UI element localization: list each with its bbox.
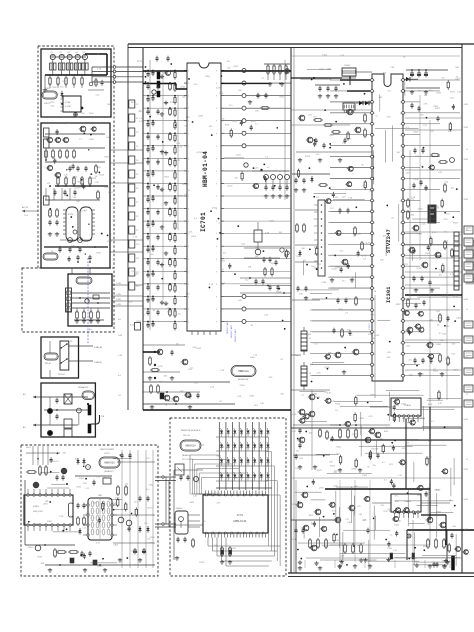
- svg-text:3-2B: 3-2B: [464, 357, 469, 359]
- svg-text:4.7K: 4.7K: [96, 543, 101, 545]
- svg-text:P7: P7: [136, 202, 138, 204]
- svg-text:2.2K: 2.2K: [311, 522, 316, 524]
- svg-text:2.2K: 2.2K: [115, 497, 120, 499]
- svg-text:9: 9: [216, 271, 217, 273]
- svg-text:Q3: Q3: [67, 52, 70, 54]
- svg-text:P0: P0: [136, 104, 138, 106]
- svg-text:4.7K: 4.7K: [450, 274, 455, 276]
- svg-text:9: 9: [216, 121, 217, 123]
- svg-text:Q702: Q702: [97, 566, 103, 568]
- svg-text:1: 1: [374, 179, 375, 181]
- svg-text:2: 2: [400, 146, 401, 148]
- svg-text:47u: 47u: [177, 314, 180, 316]
- svg-text:2.2K: 2.2K: [59, 516, 64, 518]
- svg-text:4.7K: 4.7K: [97, 69, 102, 71]
- svg-text:Q702: Q702: [111, 503, 117, 505]
- svg-text:B-REV: B-REV: [104, 453, 111, 455]
- svg-text:V-OUT: V-OUT: [369, 323, 371, 330]
- svg-text:1: 1: [374, 288, 375, 290]
- svg-text:3-2B: 3-2B: [464, 529, 469, 531]
- svg-text:47u: 47u: [408, 360, 411, 362]
- svg-text:4.7K: 4.7K: [442, 295, 447, 297]
- svg-text:47u: 47u: [223, 252, 226, 254]
- svg-text:2: 2: [400, 211, 401, 213]
- svg-text:RM601: RM601: [176, 508, 183, 510]
- svg-text:HBM-01-04: HBM-01-04: [202, 151, 209, 187]
- svg-text:Q702: Q702: [450, 91, 456, 93]
- svg-text:Q702: Q702: [412, 558, 418, 560]
- svg-text:Q702: Q702: [418, 208, 424, 210]
- svg-text:47u: 47u: [347, 330, 350, 332]
- svg-text:2.2K: 2.2K: [420, 373, 425, 375]
- svg-text:4.7K: 4.7K: [387, 509, 392, 511]
- svg-text:9: 9: [216, 259, 217, 261]
- svg-text:Q702: Q702: [212, 207, 218, 209]
- svg-text:REMOTE MODULE: REMOTE MODULE: [181, 430, 201, 432]
- svg-text:4-4: 4-4: [118, 375, 121, 377]
- svg-text:47u: 47u: [420, 114, 423, 116]
- svg-text:P10: P10: [136, 244, 139, 246]
- svg-text:Q702: Q702: [233, 66, 239, 68]
- svg-text:2.2K: 2.2K: [370, 314, 375, 316]
- svg-text:47u: 47u: [134, 501, 137, 503]
- svg-text:DEGAUSS: DEGAUSS: [78, 386, 88, 389]
- svg-text:9: 9: [216, 108, 217, 110]
- svg-text:1: 1: [188, 246, 189, 248]
- svg-text:RELAY: RELAY: [45, 362, 52, 365]
- svg-text:2: 2: [400, 91, 401, 93]
- svg-text:4.7K: 4.7K: [176, 160, 181, 162]
- svg-text:1: 1: [188, 71, 189, 73]
- svg-text:P9: P9: [136, 230, 138, 232]
- svg-text:HBM-01A: HBM-01A: [185, 445, 196, 448]
- svg-text:9: 9: [216, 133, 217, 135]
- svg-text:9: 9: [216, 221, 217, 223]
- svg-text:47u: 47u: [385, 427, 388, 429]
- svg-text:1: 1: [188, 133, 189, 135]
- svg-text:P8: P8: [136, 216, 138, 218]
- svg-text:3-2B: 3-2B: [464, 199, 469, 201]
- svg-text:3-2B: 3-2B: [464, 469, 469, 471]
- svg-text:1: 1: [374, 157, 375, 159]
- svg-text:9: 9: [216, 284, 217, 286]
- svg-text:4.7K: 4.7K: [423, 104, 428, 106]
- svg-text:4.7K: 4.7K: [384, 511, 389, 513]
- svg-text:Q702: Q702: [436, 512, 442, 514]
- svg-text:4-8: 4-8: [118, 319, 121, 321]
- svg-text:1: 1: [188, 146, 189, 148]
- svg-text:2.2K: 2.2K: [237, 396, 242, 398]
- svg-text:Q702: Q702: [34, 523, 40, 525]
- svg-text:Q702: Q702: [196, 348, 202, 350]
- svg-text:47u: 47u: [439, 274, 442, 276]
- svg-text:HEIGHT-ADJ: HEIGHT-ADJ: [226, 321, 229, 334]
- svg-text:47u: 47u: [459, 235, 462, 237]
- svg-text:9: 9: [216, 296, 217, 298]
- svg-text:9: 9: [216, 196, 217, 198]
- svg-text:1-8W: 1-8W: [116, 283, 121, 285]
- svg-text:1: 1: [188, 271, 189, 273]
- svg-text:47u: 47u: [150, 254, 153, 256]
- svg-text:2.2K: 2.2K: [234, 477, 239, 479]
- svg-text:4.7K: 4.7K: [448, 131, 453, 133]
- svg-text:2.2K: 2.2K: [56, 174, 61, 176]
- svg-text:JW: JW: [316, 197, 319, 199]
- svg-text:1: 1: [188, 158, 189, 160]
- svg-text:P6: P6: [136, 188, 138, 190]
- svg-text:2.2K: 2.2K: [149, 543, 154, 545]
- svg-text:1-8B(-B): 1-8B(-B): [94, 362, 102, 364]
- svg-text:47u: 47u: [394, 496, 397, 498]
- svg-text:1: 1: [188, 83, 189, 85]
- svg-text:2.2K: 2.2K: [219, 93, 224, 95]
- svg-text:2: 2: [400, 222, 401, 224]
- svg-text:2.2K: 2.2K: [366, 242, 371, 244]
- svg-text:2.2K: 2.2K: [372, 291, 377, 293]
- svg-text:1-9: 1-9: [118, 395, 121, 397]
- svg-text:2.2K: 2.2K: [95, 182, 100, 184]
- svg-text:47u: 47u: [405, 423, 408, 425]
- svg-text:RL: RL: [70, 341, 72, 343]
- svg-text:S0: S0: [251, 419, 253, 421]
- svg-text:2.2K: 2.2K: [347, 139, 352, 141]
- svg-text:4.7K: 4.7K: [317, 372, 322, 374]
- svg-text:4.7K: 4.7K: [333, 486, 338, 488]
- svg-text:9: 9: [216, 246, 217, 248]
- svg-text:Q1: Q1: [50, 52, 53, 54]
- svg-text:2.2K: 2.2K: [331, 401, 336, 403]
- svg-text:3-2B: 3-2B: [464, 159, 469, 161]
- svg-text:IC101: IC101: [68, 214, 74, 216]
- svg-text:2: 2: [400, 113, 401, 115]
- svg-text:2.2K: 2.2K: [133, 236, 138, 238]
- svg-text:HEIGHT-ADJ: HEIGHT-ADJ: [230, 325, 233, 338]
- svg-text:2.2K: 2.2K: [445, 358, 450, 360]
- svg-text:2: 2: [400, 179, 401, 181]
- svg-text:9: 9: [216, 183, 217, 185]
- svg-text:9: 9: [216, 96, 217, 98]
- svg-text:2.2K: 2.2K: [210, 387, 215, 389]
- svg-text:47u: 47u: [226, 61, 229, 63]
- svg-text:2.2K: 2.2K: [444, 219, 449, 221]
- svg-text:1-8W: 1-8W: [116, 294, 121, 296]
- svg-text:1-8W: 1-8W: [116, 304, 121, 306]
- svg-text:2: 2: [400, 288, 401, 290]
- svg-text:3-2B: 3-2B: [464, 419, 469, 421]
- svg-text:AC IN: AC IN: [22, 206, 28, 209]
- svg-text:1: 1: [374, 80, 375, 82]
- svg-text:4.7K: 4.7K: [369, 416, 374, 418]
- svg-text:1: 1: [188, 309, 189, 311]
- svg-text:HBM-01A: HBM-01A: [104, 462, 115, 465]
- svg-text:CN302: CN302: [344, 65, 351, 67]
- svg-text:1: 1: [374, 200, 375, 202]
- svg-text:Q702: Q702: [158, 366, 164, 368]
- svg-text:1: 1: [188, 284, 189, 286]
- svg-text:9: 9: [216, 171, 217, 173]
- svg-text:KA5Q0765: KA5Q0765: [33, 510, 44, 513]
- svg-text:1: 1: [374, 168, 375, 170]
- svg-text:(BLA01-P): (BLA01-P): [104, 470, 114, 473]
- svg-text:3-2B: 3-2B: [464, 104, 469, 106]
- svg-text:P2: P2: [136, 132, 138, 134]
- svg-text:47u: 47u: [334, 197, 337, 199]
- svg-text:Q702: Q702: [453, 296, 459, 298]
- svg-text:1: 1: [188, 196, 189, 198]
- svg-text:Q5: Q5: [82, 52, 85, 54]
- svg-text:S7: S7: [232, 419, 234, 421]
- svg-text:3-8B(+B): 3-8B(+B): [94, 347, 102, 349]
- svg-text:47u: 47u: [429, 90, 432, 92]
- svg-text:1: 1: [188, 259, 189, 261]
- svg-text:47u: 47u: [441, 77, 444, 79]
- svg-text:1: 1: [374, 233, 375, 235]
- svg-text:S2: S2: [245, 419, 247, 421]
- svg-text:47u: 47u: [62, 55, 65, 57]
- svg-text:47u: 47u: [411, 199, 414, 201]
- svg-text:2: 2: [400, 321, 401, 323]
- svg-text:IC601: IC601: [33, 506, 40, 508]
- svg-text:IC301: IC301: [386, 286, 392, 303]
- svg-text:1: 1: [374, 135, 375, 137]
- svg-text:9: 9: [216, 146, 217, 148]
- svg-text:2.2K: 2.2K: [170, 102, 175, 104]
- svg-text:2: 2: [400, 190, 401, 192]
- svg-text:3-2B: 3-2B: [464, 127, 469, 129]
- svg-text:HEIGHT-ADJ: HEIGHT-ADJ: [234, 329, 237, 342]
- svg-text:2.2K: 2.2K: [348, 198, 353, 200]
- svg-text:4.7K: 4.7K: [130, 325, 135, 327]
- svg-text:P3: P3: [136, 146, 138, 148]
- svg-text:Q702: Q702: [369, 191, 375, 193]
- svg-text:1: 1: [188, 108, 189, 110]
- svg-text:1-4D: 1-4D: [292, 414, 297, 416]
- svg-text:1-4C: 1-4C: [292, 431, 297, 433]
- svg-text:S0: S0: [225, 419, 227, 421]
- svg-text:1: 1: [374, 124, 375, 126]
- svg-text:4.7K: 4.7K: [265, 233, 270, 235]
- svg-text:2.2K: 2.2K: [421, 223, 426, 225]
- svg-text:2: 2: [400, 310, 401, 312]
- svg-text:9: 9: [216, 71, 217, 73]
- svg-text:47u: 47u: [372, 465, 375, 467]
- svg-text:47u: 47u: [451, 188, 454, 190]
- svg-text:1: 1: [374, 266, 375, 268]
- svg-text:S5: S5: [238, 419, 240, 421]
- svg-text:47u: 47u: [202, 521, 205, 523]
- svg-text:(BLA01): (BLA01): [182, 454, 190, 457]
- svg-text:2.2K: 2.2K: [64, 174, 69, 176]
- svg-text:1: 1: [188, 296, 189, 298]
- svg-text:X-TAL: X-TAL: [65, 101, 71, 104]
- svg-text:2.2K: 2.2K: [67, 122, 72, 124]
- svg-text:47u: 47u: [332, 510, 335, 512]
- svg-text:2: 2: [400, 135, 401, 137]
- svg-text:9: 9: [216, 158, 217, 160]
- svg-text:1: 1: [374, 190, 375, 192]
- svg-text:1: 1: [374, 211, 375, 213]
- svg-text:S7: S7: [258, 419, 260, 421]
- svg-text:RM-201: RM-201: [183, 435, 191, 437]
- svg-text:Q702: Q702: [352, 434, 358, 436]
- svg-text:2.2K: 2.2K: [424, 188, 429, 190]
- svg-text:Q702: Q702: [436, 92, 442, 94]
- svg-text:Q4: Q4: [75, 52, 78, 54]
- svg-text:4.7K: 4.7K: [184, 194, 189, 196]
- svg-text:1: 1: [374, 222, 375, 224]
- svg-text:1: 1: [188, 234, 189, 236]
- svg-text:1: 1: [374, 113, 375, 115]
- svg-text:D601-4: D601-4: [52, 461, 59, 463]
- svg-text:47u: 47u: [147, 539, 150, 541]
- svg-text:2.2K: 2.2K: [220, 370, 225, 372]
- svg-text:P11: P11: [136, 258, 139, 260]
- svg-text:2: 2: [400, 354, 401, 356]
- svg-text:2.2K: 2.2K: [176, 143, 181, 145]
- svg-text:4.7K: 4.7K: [432, 232, 437, 234]
- svg-text:47u: 47u: [388, 90, 391, 92]
- svg-text:4.7K: 4.7K: [438, 403, 443, 405]
- svg-text:1: 1: [188, 183, 189, 185]
- svg-text:4.7K: 4.7K: [209, 284, 214, 286]
- svg-text:2: 2: [400, 299, 401, 301]
- svg-text:4.7K: 4.7K: [139, 121, 144, 123]
- svg-text:9: 9: [216, 83, 217, 85]
- svg-text:1: 1: [188, 96, 189, 98]
- svg-text:3-2B: 3-2B: [464, 299, 469, 301]
- svg-text:(BLA01-M): (BLA01-M): [238, 378, 248, 381]
- svg-text:4.7K: 4.7K: [362, 256, 367, 258]
- svg-text:2: 2: [400, 277, 401, 279]
- svg-text:1: 1: [374, 277, 375, 279]
- svg-text:Q702: Q702: [108, 192, 114, 194]
- svg-text:TDA16: TDA16: [404, 500, 412, 503]
- svg-text:47u: 47u: [342, 280, 345, 282]
- svg-text:2: 2: [400, 376, 401, 378]
- svg-text:RY-401: RY-401: [58, 374, 65, 376]
- svg-text:1: 1: [374, 255, 375, 257]
- svg-text:1: 1: [188, 171, 189, 173]
- svg-text:2: 2: [400, 255, 401, 257]
- svg-text:P5: P5: [136, 174, 138, 176]
- svg-text:1: 1: [188, 221, 189, 223]
- svg-text:SMPS POWER: SMPS POWER: [100, 449, 114, 451]
- svg-text:Q702: Q702: [351, 468, 357, 470]
- svg-text:1-8W: 1-8W: [116, 299, 121, 301]
- svg-text:9: 9: [216, 309, 217, 311]
- svg-text:IC701: IC701: [200, 212, 207, 232]
- svg-text:4.43M: 4.43M: [65, 106, 71, 108]
- svg-text:3-2B: 3-2B: [464, 499, 469, 501]
- svg-text:IC?01: IC?01: [237, 514, 244, 517]
- svg-text:4.7K: 4.7K: [327, 393, 332, 395]
- svg-text:4.7K: 4.7K: [105, 187, 110, 189]
- svg-text:2: 2: [400, 266, 401, 268]
- svg-text:1: 1: [188, 121, 189, 123]
- svg-text:P1: P1: [136, 118, 138, 120]
- svg-text:S4: S4: [265, 419, 267, 421]
- svg-text:P4: P4: [136, 160, 138, 162]
- svg-text:47u: 47u: [340, 251, 343, 253]
- svg-text:Q702: Q702: [438, 317, 444, 319]
- svg-text:S3: S3: [218, 419, 220, 421]
- svg-text:1: 1: [374, 244, 375, 246]
- svg-text:2.2K: 2.2K: [216, 88, 221, 90]
- svg-text:1: 1: [374, 146, 375, 148]
- svg-text:TU101: TU101: [44, 88, 51, 90]
- svg-text:P13: P13: [136, 286, 139, 288]
- svg-text:2: 2: [400, 343, 401, 345]
- svg-text:HBM-01-01: HBM-01-01: [233, 519, 247, 523]
- svg-text:Q702: Q702: [75, 188, 81, 190]
- svg-text:2: 2: [400, 244, 401, 246]
- svg-text:4.7K: 4.7K: [329, 505, 334, 507]
- svg-text:2: 2: [400, 80, 401, 82]
- svg-text:2: 2: [400, 365, 401, 367]
- svg-text:47u: 47u: [229, 105, 232, 107]
- svg-text:2: 2: [400, 200, 401, 202]
- svg-text:1: 1: [188, 322, 189, 324]
- svg-text:2.2K: 2.2K: [386, 116, 391, 118]
- svg-text:2: 2: [400, 233, 401, 235]
- svg-text:STV2247: STV2247: [386, 229, 392, 253]
- svg-text:2: 2: [400, 157, 401, 159]
- svg-text:2: 2: [400, 124, 401, 126]
- svg-text:2: 2: [400, 332, 401, 334]
- svg-text:1: 1: [374, 91, 375, 93]
- svg-text:2: 2: [400, 102, 401, 104]
- svg-text:2: 2: [400, 168, 401, 170]
- svg-text:9: 9: [216, 322, 217, 324]
- svg-text:47u: 47u: [146, 489, 149, 491]
- svg-text:47u: 47u: [271, 263, 274, 265]
- svg-text:1: 1: [188, 209, 189, 211]
- svg-text:1: 1: [374, 102, 375, 104]
- svg-text:9: 9: [216, 234, 217, 236]
